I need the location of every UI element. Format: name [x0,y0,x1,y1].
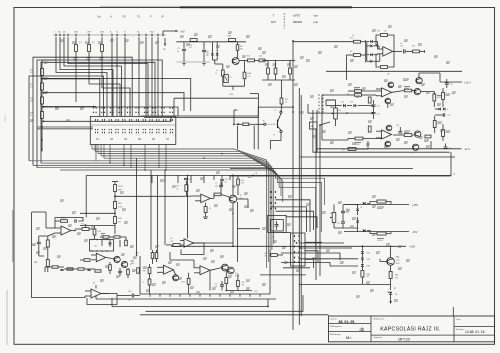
bus feed drops from connector block [91,144,93,149]
svg-text:T7k: T7k [215,284,218,286]
svg-text:RQT: RQT [150,32,155,34]
svg-text:D51: D51 [367,253,370,255]
svg-text:R7b: R7b [350,38,353,40]
svg-text:88. 01. 25.: 88. 01. 25. [339,320,356,324]
resistor R52 [280,98,283,104]
svg-text:C26: C26 [377,114,380,116]
svg-text:Ru: Ru [137,32,140,34]
resistor R2b on rail [229,39,236,42]
bus wire [104,158,274,244]
terminal drop wires [111,37,113,102]
connector pin pair [169,119,171,121]
harness wire from left loop 1 [33,57,132,165]
svg-text:+15V: +15V [412,203,418,207]
svg-text:C30: C30 [450,84,453,86]
second bottom wire [146,295,304,311]
svg-text:W1k: W1k [240,49,243,51]
svg-text:R52: R52 [285,99,288,101]
diode D48 [356,208,359,210]
svg-text:C25: C25 [377,106,380,108]
op-amp U2 upper [382,88,392,97]
rail -7V label [226,290,252,292]
left margin fold marks [6,290,8,345]
arrow down from zener [389,301,391,304]
connector pin pair [149,119,151,121]
IC box U5 [90,240,114,252]
capacitor C25 [372,104,376,106]
amp block wires [326,99,336,101]
svg-text:1k: 1k [209,208,211,210]
+15V rail [344,203,409,205]
svg-text:T2: T2 [240,195,242,197]
svg-text:1N: 1N [360,207,363,209]
op-amp IC5 [61,226,71,235]
-12V output wire [317,148,462,150]
terminal drop wire [138,37,140,102]
connector pin pair [129,119,131,121]
pot P21 [82,228,89,231]
wire R column [41,119,43,141]
trunk wire A [292,41,294,330]
bus junction dots [123,165,125,167]
svg-text:BD3: BD3 [396,263,399,265]
svg-text:(P): (P) [92,42,95,44]
transistor T6 top [416,78,422,84]
branch wire R3 [44,107,179,116]
+12V output wire [440,81,462,83]
harness wire from R column [41,78,43,80]
svg-text:10k: 10k [352,35,355,37]
svg-text:4,7k: 4,7k [248,76,251,78]
diode D49 [356,221,359,223]
svg-text:2xD: 2xD [341,102,345,104]
svg-text:MM: MM [215,186,218,188]
ladder vertical bar [365,40,367,63]
resistor drop wires [75,60,77,102]
harness wire from left loop 3 [41,62,155,163]
comb ticks lower box bottom [149,294,151,297]
transistor T12 [412,144,418,150]
svg-text:4B: 4B [285,102,287,104]
resistor R9 ladder bottom [354,54,361,57]
bus wire [29,161,325,205]
svg-text:KAPCSOLÁSI RAJZ III.: KAPCSOLÁSI RAJZ III. [380,325,440,332]
op-amp IC6 [96,253,106,262]
svg-text:C28: C28 [396,125,399,127]
resistor R3a vertical [148,279,151,285]
capacitor C7 [219,184,223,186]
svg-text:S7: S7 [166,138,170,141]
feedback loop IC2 [181,243,204,255]
svg-text:T13: T13 [396,260,399,262]
resistor R45b upper input 2 [355,94,362,97]
transistor T13 [387,258,395,266]
svg-text:D52: D52 [367,259,370,261]
resistor R57 vertical [442,130,445,137]
+5V supply arrow [163,30,178,32]
branch wire R2 [44,93,185,111]
pot P1 regulator [224,75,229,83]
svg-text:R60: R60 [367,274,370,276]
bus wire [33,165,316,246]
resistor R13 feedback top [381,34,388,37]
resistor R33b vertical [187,278,190,284]
power rail top [176,41,246,43]
staircase wires to rails [299,242,344,244]
resistor P1 [75,37,77,44]
svg-text:-7V: -7V [92,283,96,285]
svg-text:4n7: 4n7 [400,43,403,45]
svg-text:db: db [360,327,365,332]
connector pin pair [95,119,97,121]
svg-text:2x: 2x [447,109,449,111]
-15V rail [344,231,409,233]
svg-text:-15V: -15V [412,230,418,234]
connector pins J4 area [318,94,320,96]
resistors R47 R51 R50 row [267,68,270,74]
svg-text:QP1: QP1 [74,32,79,34]
svg-text:5?: 5? [272,237,274,239]
svg-text:Rajzszám: Rajzszám [374,337,383,339]
drop wire mid [187,175,189,238]
resistor R4W [243,72,246,79]
svg-text:LM: LM [170,238,173,240]
wires T4 region [233,110,235,124]
capacitor C30 output [445,82,449,84]
svg-text:P: P [150,15,152,19]
svg-text:2x: 2x [206,52,208,54]
svg-text:Példányszám: Példányszám [330,326,342,328]
svg-text:12k: 12k [176,186,179,188]
zener diode Z1 [389,292,392,295]
svg-text:S5: S5 [138,138,142,141]
wire stub above title block [452,307,454,316]
svg-text:MFT-20: MFT-20 [398,337,410,341]
diode D51 [361,251,364,253]
svg-text:1k: 1k [143,282,145,284]
op-amp U1 output [393,50,402,52]
resistor R7 ladder top [354,40,361,43]
transistor T16 [173,275,179,281]
resistor R52 lower input [355,137,363,140]
rail arrow mid [252,175,254,177]
left loop wire [32,212,85,298]
connector pin pair [101,119,103,121]
lower pin group box [291,233,306,266]
svg-text:R33: R33 [182,282,185,284]
resistor R38 below opamp [204,207,207,213]
pot P3 [334,108,338,119]
drop wire to lower box 3 [164,170,166,245]
svg-text:R8: R8 [265,253,267,255]
ladder diode D1 [367,41,370,43]
svg-text:BC1B: BC1B [235,276,239,278]
resistor R5a on rail [190,39,197,42]
resistor R46 upper out [404,89,412,92]
svg-text:(R2): (R2) [228,36,232,38]
feedback box IC5 [55,217,60,221]
svg-text:R15: R15 [412,46,415,48]
connector column drops [95,144,97,160]
resistor R58 [377,200,386,203]
diode pair D46 D47 [438,108,440,111]
svg-text:L/W: L/W [170,241,173,243]
resistor R40b [225,278,228,284]
svg-text:eA: eA [58,31,61,34]
box corner lower-left section [85,176,87,218]
svg-text:RC22: RC22 [118,186,123,188]
svg-text:ZENER: ZENER [293,20,302,24]
svg-text:C4b: C4b [259,56,262,58]
svg-text:MDB: MDB [131,263,134,265]
output wire bottom run [101,293,109,295]
capacitor C1 [183,42,185,49]
connector pin pair [122,119,124,121]
misc value labels [196,189,200,191]
svg-text:470k: 470k [241,183,245,185]
transistor T7 output upper [414,88,420,94]
cluster caps lower left [118,270,122,272]
wire from trunk to ladder [293,41,354,43]
connector pin pair [142,119,144,121]
diode pair 2xD5 [211,42,213,53]
lower amp box [140,250,270,294]
terminal drop wire [151,37,153,102]
op-amp U1 [383,47,393,57]
capacitor C36 [341,210,345,212]
ladder diode D2 [367,45,370,47]
op-amp IC9 [91,289,101,298]
terminal drop wire [157,37,159,102]
svg-text:P5k: P5k [118,221,121,223]
svg-text:4R7: 4R7 [395,278,398,280]
branch wire R4 [44,116,172,121]
resistor R44 upper input [355,90,362,93]
svg-text:+7V: +7V [254,291,258,293]
resistor R53 lower [348,148,356,151]
bus wire [60,170,283,202]
svg-text:npn: npn [314,15,319,18]
input terminal row [53,34,166,36]
junction dots [41,126,43,128]
resistor R40 feedback [61,220,68,223]
svg-text:u17: u17 [94,246,98,248]
drop wire to lower box 2 [157,175,159,252]
svg-text:eS: eS [63,32,66,34]
connector pin pair [163,119,165,121]
bus wire [37,168,281,196]
svg-text:S1: S1 [96,138,100,141]
resistor R7b output [248,59,255,62]
svg-text:P21: P21 [81,224,84,226]
connector pin pair [135,119,137,121]
svg-text:PF: PF [163,49,166,51]
resistor P3 [101,37,103,44]
svg-text:I7D: I7D [342,150,345,152]
resistor RC22 [114,185,117,192]
resistor R48 emitter [433,94,436,101]
svg-text:P1: P1 [230,77,232,79]
trunk wire E [319,125,321,276]
svg-text:R7b: R7b [247,56,250,58]
junction IC2 [193,242,195,244]
svg-text:2: 2 [394,286,396,290]
long wire j2 [308,112,374,114]
op-amp IC8 [200,266,210,275]
svg-text:C24: C24 [447,115,450,117]
resistor R60 [361,271,364,278]
svg-text:D53: D53 [367,266,370,268]
harness wire 2 [60,37,113,107]
svg-text:E: E [274,135,276,137]
trunk wire D [315,129,317,280]
op-amp IC1 [201,194,211,203]
vertical wire left of lower box [136,158,138,256]
svg-text:9,1k: 9,1k [30,87,33,89]
resistor R4a [237,281,240,287]
diode D52 [361,257,364,259]
svg-text:-12 V: -12 V [464,147,470,151]
capacitor C37 [341,221,345,223]
svg-text:+5V: +5V [180,29,185,33]
svg-text:C: C [275,110,277,112]
wire branch QP2 [89,84,120,102]
capacitor C33 [220,284,224,286]
svg-text:6u: 6u [177,51,179,53]
capacitor C24b [442,113,444,117]
wire to zener [299,283,390,285]
wires T2 [232,203,234,214]
svg-text:R62: R62 [395,275,398,277]
resistor R42 input [84,259,90,262]
resistor R41 [46,240,49,247]
svg-text:C7: C7 [215,183,217,185]
resistor R31 vertical [148,268,151,274]
resistor R43 [173,244,180,247]
svg-text:Y: Y [54,32,56,34]
svg-text:R11: R11 [240,46,243,48]
svg-text:S4: S4 [124,138,128,141]
wire diode column [361,246,363,250]
svg-text:R35: R35 [118,218,121,220]
svg-text:QP3: QP3 [100,32,105,34]
svg-text:+12 V: +12 V [464,80,471,84]
svg-text:TK: TK [137,15,141,19]
svg-text:R34: R34 [143,271,146,273]
capacitor C28 [398,131,402,133]
harness wire 1 [56,37,107,107]
svg-text:P3: P3 [339,110,342,112]
resistor R36 vertical [185,185,188,192]
long wire right lower [230,168,413,170]
svg-text:R61: R61 [396,257,399,259]
diode D53 [361,264,364,266]
svg-text:D5: D5 [206,55,208,57]
pot 5B [332,213,336,223]
svg-text:R9: R9 [350,51,352,53]
resistor C4b output [259,59,265,62]
op-amp IC7 [164,265,174,274]
resistor R11a on rail [237,175,239,178]
PSU bottom wire [223,85,245,87]
svg-text:10k: 10k [384,31,387,33]
harness wire from left loop 2 [37,60,162,168]
branch wire R1 [44,78,191,111]
wire double to connector [37,126,93,128]
svg-text:560: 560 [367,276,370,278]
svg-text:C10: C10 [225,179,228,181]
svg-text:T: T [273,14,275,18]
connector block inner divider [90,124,176,126]
svg-text:C4b: C4b [189,45,192,47]
svg-text:C16: C16 [188,179,191,181]
svg-text:FET: FET [271,20,276,24]
svg-text:Megnevezés: Megnevezés [374,318,385,320]
wire top tick [112,180,118,182]
long wire upper right [326,70,462,72]
transistor T1a [222,264,229,271]
branch junction dots [43,78,45,80]
svg-text:10n: 10n [225,182,228,184]
bus wire [95,151,268,262]
resistor R54 vertical [368,126,371,132]
resistor R61 emitter [389,272,392,279]
svg-text:14,2: 14,2 [346,212,349,214]
diode Da cluster [103,236,109,238]
svg-text:6k8: 6k8 [387,74,390,76]
connector pin pair [115,119,117,121]
pre-connector pin pairs [93,107,94,108]
svg-text:18: 18 [453,174,455,176]
svg-text:R11a: R11a [241,180,245,182]
feedback rect IC9 [87,294,117,305]
resistor R55 lower out [404,134,412,137]
bus wire [92,149,267,268]
svg-text:Érvényes: Érvényes [456,328,464,331]
svg-text:T12: T12 [411,153,414,155]
svg-text:TM: TM [122,15,126,19]
resistor R49 vertical right [442,93,445,100]
transistor T11 output lower [415,131,421,137]
PF down arrow [164,38,166,46]
svg-text:Dm: Dm [97,15,101,19]
resistor P2 [88,37,90,44]
svg-text:T5: T5 [215,73,217,75]
input arrow and resistor [233,123,235,125]
amplifier box outline 2 [321,95,323,140]
resistor R59 [377,232,386,235]
svg-text:S3: S3 [110,138,114,141]
wire to connector arrow [52,106,96,108]
capacitor F2 [203,42,205,50]
svg-text:+10V: +10V [409,245,415,249]
svg-text:1B: 1B [255,173,258,175]
transistor T7a [227,267,234,274]
svg-text:R34: R34 [118,203,121,205]
transistor T8 [385,98,391,104]
svg-text:P+: P+ [116,32,119,34]
connector J4 [310,122,318,129]
svg-text:M=: M= [346,335,352,340]
svg-text:1M: 1M [30,101,33,103]
resistor R45 vertical [368,97,371,103]
svg-text:-10V: -10V [229,94,234,96]
svg-text:1k: 1k [216,70,218,72]
capacitor C11 [402,49,404,53]
svg-text:(P): (P) [79,42,82,44]
svg-text:C37: C37 [337,223,340,225]
ladder diode D3 [367,54,370,56]
